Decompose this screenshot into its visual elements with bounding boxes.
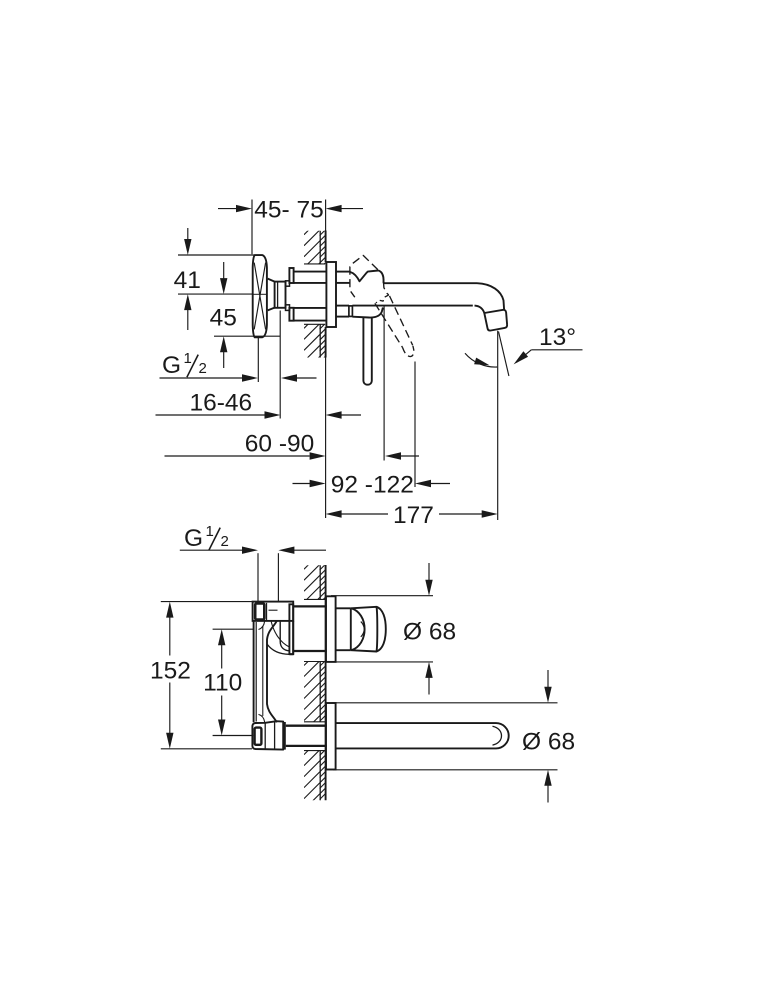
- svg-text:2: 2: [221, 533, 229, 550]
- svg-text:16-46: 16-46: [189, 390, 252, 417]
- svg-text:13°: 13°: [539, 324, 576, 351]
- svg-text:45- 75: 45- 75: [254, 197, 323, 224]
- svg-text:45: 45: [210, 304, 237, 331]
- svg-text:2: 2: [199, 360, 207, 377]
- svg-text:1: 1: [206, 523, 214, 540]
- svg-text:G: G: [184, 525, 203, 552]
- svg-text:41: 41: [174, 267, 201, 294]
- svg-text:Ø 68: Ø 68: [403, 619, 456, 646]
- svg-text:G: G: [162, 352, 181, 379]
- svg-text:177: 177: [393, 502, 434, 529]
- svg-text:92 -122: 92 -122: [331, 471, 414, 498]
- svg-text:60 -90: 60 -90: [245, 431, 314, 458]
- svg-text:1: 1: [184, 350, 192, 367]
- svg-text:110: 110: [203, 670, 242, 697]
- svg-text:Ø 68: Ø 68: [522, 729, 575, 756]
- svg-text:152: 152: [150, 658, 191, 685]
